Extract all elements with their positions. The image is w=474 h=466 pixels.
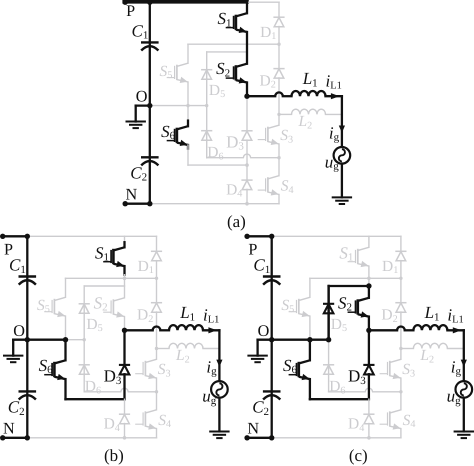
a: transistor S3 — [258, 125, 279, 145]
b: diode D4 — [119, 414, 130, 424]
b: transistor S2 — [103, 298, 124, 318]
a: wire row2 D5-top to S1S2 node — [207, 51, 247, 53]
c: wire E S4 to N bus — [400, 429, 402, 438]
b: transistor S4 — [135, 410, 156, 430]
a: wire E bus to D1 — [278, 2, 280, 17]
c: diode D2 — [395, 303, 406, 313]
b: wire B S5 to O row — [65, 316, 67, 340]
a: node row3 S3S4 grey — [277, 156, 280, 159]
c: diode D4 — [363, 414, 374, 424]
b: wire O ground tap — [13, 339, 27, 341]
b: wire D row4 to D4 — [124, 399, 126, 414]
a: node N-rail — [147, 201, 152, 206]
a: node P dot — [123, 0, 128, 5]
a: wire C row2 to D5 — [206, 52, 208, 79]
a: ground grid — [332, 197, 352, 204]
b: wire P dot to rail — [2, 235, 28, 237]
c: wire out node to hop — [369, 329, 397, 331]
a: wire P bus thick P-to-S1 — [124, 0, 247, 4]
c: transistor S1 — [348, 247, 369, 267]
a: wire B S5 to O row — [187, 82, 189, 106]
a: wire O row S6-leg to D5-leg — [188, 105, 207, 107]
b: wire hop to L1 — [160, 329, 169, 331]
c: arrow ig — [461, 360, 467, 367]
a: wire N bus rail to S4-leg — [150, 203, 279, 205]
b: source ug — [211, 381, 228, 398]
c: wire hop to L1 — [405, 329, 414, 331]
b: wire row2 D5-top to S1S2 node — [84, 285, 124, 287]
b: wire grid drop — [218, 330, 220, 381]
c: wire grid drop — [463, 330, 465, 381]
svg-text:P: P — [126, 2, 135, 20]
b: wire C row2 to D5 — [83, 286, 85, 313]
c: diode D1 — [395, 251, 406, 260]
c: node row1 grey — [367, 277, 371, 281]
c: wire E D2 to L2 row — [400, 312, 402, 349]
c: wire O row S6-leg to D5-leg — [310, 339, 329, 341]
a: wire out node to hop — [247, 95, 275, 97]
b: node N-rail — [25, 435, 30, 440]
b: node O row D5-leg grey — [83, 338, 86, 341]
c: wire hop over D2-leg — [397, 327, 405, 331]
svg-text:O: O — [136, 88, 148, 106]
svg-text:N: N — [126, 186, 138, 204]
a: node O row D5-leg grey — [205, 104, 208, 107]
b: diode D1 — [151, 251, 162, 260]
b: wire C D5 to O row — [83, 313, 85, 340]
a: diode D5 — [201, 70, 212, 80]
a: diode D1 — [273, 17, 284, 26]
c: wire D S2 to out node — [368, 317, 370, 331]
c: wire D row2 to S2 — [368, 286, 370, 298]
b: wire N dot to rail — [2, 437, 28, 439]
c: ground grid — [454, 432, 474, 439]
c: inductor L1 — [413, 325, 447, 330]
a: wire D row4 to D4 — [246, 165, 248, 180]
b: wire B row1 to S5 — [65, 278, 67, 297]
b: node O — [25, 337, 30, 342]
a: transistor S1 — [226, 13, 247, 33]
b: wire E row3 to S4 — [156, 392, 158, 410]
b: capacitor C1 — [19, 277, 37, 285]
a: diode D2 — [273, 69, 284, 79]
b: wire L2 row right — [203, 348, 219, 350]
b: capacitor C2 — [19, 391, 37, 399]
c: node N dot — [244, 435, 249, 440]
a: capacitor C1 — [141, 42, 159, 50]
c: wire E row3 to S4 — [400, 392, 402, 410]
a: wire L2 row left — [279, 113, 292, 115]
c: wire D5 leg bold row2 corner — [327, 286, 329, 340]
a: wire E S3 to row3 — [278, 144, 280, 158]
c: wire D out node to D3 — [368, 330, 370, 365]
b: wire C D6 to row3 — [83, 374, 85, 392]
b: wire D out node to D3 — [123, 330, 125, 365]
b: wire O row rail to S6-leg — [27, 339, 65, 341]
svg-text:(b): (b) — [104, 446, 124, 465]
b: wire row3 D6 to S3S4 node (right) — [128, 391, 156, 393]
c: wire B row1 to S5 — [309, 278, 311, 297]
b: transistor S5 — [44, 297, 65, 317]
a: wire O ground tap — [136, 104, 150, 106]
b: wire O row S6-leg to D5-leg — [66, 339, 85, 341]
a: wire grid drop — [341, 96, 343, 147]
b: wire E row1 to D2 — [156, 278, 158, 303]
c: node L2row D2-leg grey — [399, 347, 402, 350]
a: wire D out node to D3 — [246, 96, 248, 131]
a: wire row3 D6 to S3S4 node (right) — [251, 157, 279, 159]
a: node N bus D-leg grey — [245, 202, 249, 206]
b: ground grid — [209, 432, 229, 439]
c: wire O tap down — [256, 340, 258, 356]
c: wire hop row3 over S1-leg — [365, 388, 372, 392]
c: wire top bus rail to D1 leg — [272, 235, 401, 237]
c: wire E row1 to D2 — [400, 278, 402, 303]
c: wire L2 row right — [447, 348, 463, 350]
a: wire S6 collector stub — [187, 121, 189, 127]
c: wire rail P to N — [271, 236, 273, 437]
b: wire B S6 to row4 — [64, 379, 66, 399]
a: arrow ig — [339, 126, 345, 133]
a: wire B O row to S6 — [187, 106, 189, 127]
b: wire top bus rail to D1 leg — [27, 235, 156, 237]
a: capacitor C2 — [141, 157, 159, 165]
b: node out junction — [122, 328, 127, 333]
a: node O row S6-leg grey — [186, 104, 189, 107]
c: wire E bus to D1 — [400, 236, 402, 251]
b: inductor L2 — [169, 343, 203, 348]
a: wire N dot to rail — [124, 203, 150, 205]
a: node row4 D3-leg grey — [245, 163, 249, 167]
a: transistor S5 — [167, 63, 188, 83]
a: wire top bus S1-leg to D1-leg — [247, 1, 279, 3]
svg-text:O: O — [13, 322, 25, 340]
a: wire rail P to N — [149, 2, 151, 203]
c: wire O ground tap — [258, 339, 272, 341]
c: node O — [269, 337, 274, 342]
a: wire hop to L1 — [283, 95, 292, 97]
c: wire row3 D6 to S3S4 node (left) — [329, 391, 366, 393]
a: wire B row1 to S5 — [187, 44, 189, 63]
a: arrow iL1 — [331, 93, 340, 99]
a: wire hop over D2-leg — [275, 92, 283, 96]
b: wire E S3 to row3 — [156, 378, 158, 392]
b: transistor S6 — [44, 360, 65, 380]
c: transistor S5 — [289, 297, 310, 317]
a: inductor L1 — [292, 91, 326, 96]
c: node P dot — [244, 234, 249, 239]
b: wire C O row to D6 — [83, 340, 85, 374]
c: node row3 S3S4 grey — [399, 390, 402, 393]
b: wire E bus to D1 — [156, 236, 158, 251]
svg-text:N: N — [3, 420, 15, 438]
c: ground at O — [247, 356, 267, 363]
b: node N dot — [0, 435, 5, 440]
a: wire E row3 to S4 — [278, 158, 280, 176]
c: wire B O row to S6 — [309, 340, 311, 361]
b: wire D S1 emitter stub — [123, 266, 125, 275]
c: source ug — [456, 381, 473, 398]
b: wire E D2 to L2 row — [156, 312, 158, 349]
c: wire B S6 to row4 — [309, 379, 311, 399]
b: wire row3 D6 to S3S4 node (left) — [84, 391, 121, 393]
a: ground at O — [126, 122, 146, 129]
c: wire P dot to rail — [246, 235, 272, 237]
svg-text:(a): (a) — [227, 212, 246, 231]
a: wire hop row3 over S1-leg — [243, 154, 250, 158]
b: wire row1 S5-top to D1-anode — [66, 277, 157, 279]
c: node N bus D-leg grey — [367, 436, 371, 440]
svg-text:(c): (c) — [349, 446, 368, 465]
b: wire L1 to corner — [203, 329, 219, 331]
c: transistor S2 — [348, 298, 369, 318]
c: wire E L2row to S3 — [400, 349, 402, 360]
b: inductor L1 — [169, 325, 203, 330]
c: diode D5 — [323, 304, 334, 314]
c: arrow iL1 — [453, 327, 462, 333]
b: wire rail P to N — [26, 236, 28, 437]
c: wire D row4 to D4 — [368, 399, 370, 414]
c: node row1 D1-leg grey — [399, 277, 402, 280]
b: wire N bus rail to S4-leg — [27, 437, 156, 439]
a: node row1 D1-leg grey — [277, 42, 280, 45]
a: wire S6 emitter stub — [187, 145, 189, 149]
a: wire D D3 to row4 — [246, 140, 248, 165]
a: wire row4 S6-emitter to D3-anode — [188, 164, 247, 166]
b: node L2row D2-leg grey — [155, 347, 158, 350]
c: wire E S3 to row3 — [400, 378, 402, 392]
c: wire C row2 to D5 — [327, 286, 329, 313]
c: node out junction — [366, 328, 371, 333]
c: wire B S5 to O row — [309, 316, 311, 340]
b: node P dot — [0, 234, 5, 239]
b: wire out node to hop — [125, 329, 153, 331]
b: wire B O row to S6 — [64, 340, 66, 361]
b: node row1 D1-leg grey — [155, 277, 158, 280]
a: wire C D6 to row3 — [206, 140, 208, 158]
c: wire O row rail to S6-leg — [272, 339, 310, 341]
a: wire L2 row right — [326, 113, 342, 115]
b: node bus-rail — [25, 234, 30, 239]
a: wire row3 D6 to S3S4 node (left) — [207, 157, 244, 159]
a: diode D6 — [201, 131, 212, 141]
a: wire O row rail to S6-leg — [150, 105, 188, 107]
c: node N-rail — [269, 435, 274, 440]
a: node O — [147, 103, 152, 108]
b: wire D bus stub grey — [124, 236, 126, 242]
a: wire ug to ground — [341, 164, 343, 198]
b: diode D6 — [79, 365, 90, 375]
a: wire E row1 to D2 — [278, 44, 280, 69]
b: wire D S2 to out node — [124, 317, 126, 331]
b: node row3 S3S4 grey — [155, 390, 158, 393]
b: wire row4 S6-emitter to D3-anode — [66, 398, 125, 400]
b: diode D5 — [79, 304, 90, 314]
c: node row2 junction — [366, 283, 371, 288]
b: node O row S6-leg — [63, 337, 68, 342]
a: diode D4 — [241, 180, 252, 190]
c: wire ug to ground — [463, 398, 465, 432]
b: arrow iL1 — [208, 327, 217, 333]
b: diode D2 — [151, 303, 162, 313]
a: node L2row D2-leg grey — [277, 113, 280, 116]
b: transistor S3 — [135, 359, 156, 379]
c: wire C D5 to O row — [327, 313, 329, 340]
a: diode D3 — [241, 131, 252, 141]
a: node N dot — [123, 201, 128, 206]
a: wire D S1 to S2 — [246, 32, 248, 64]
c: inductor L2 — [413, 343, 447, 348]
b: wire E S4 to N bus — [156, 429, 158, 438]
b: arrow ig — [216, 360, 222, 367]
c: transistor S3 — [380, 359, 401, 379]
c: node bus-rail — [269, 234, 274, 239]
b: node row1 grey — [123, 277, 127, 281]
a: source ug — [334, 147, 351, 164]
c: wire row1 S5-top to D1-anode — [310, 277, 401, 279]
c: transistor S6 — [289, 360, 310, 380]
c: capacitor C1 — [263, 277, 281, 285]
a: wire L1 to corner — [326, 95, 342, 97]
c: wire E D1 to row1 — [400, 261, 402, 279]
svg-text:O: O — [258, 322, 270, 340]
a: wire E D2 to L2 row — [278, 78, 280, 115]
b: wire D S1 collector stub — [123, 242, 125, 247]
a: transistor S2 — [226, 64, 247, 84]
b: wire D to S2 — [124, 275, 126, 298]
b: wire O tap down — [12, 340, 14, 356]
c: wire L2 row left — [401, 348, 414, 350]
c: wire D S1 to row2 — [368, 266, 370, 286]
b: wire L2 row left — [157, 348, 170, 350]
c: capacitor C2 — [263, 391, 281, 399]
c: wire N dot to rail — [246, 437, 272, 439]
c: node O row D5-leg — [326, 337, 331, 342]
a: wire D S2 to out node — [246, 83, 248, 97]
b: wire hop over D2-leg — [153, 327, 161, 331]
c: node O row S6-leg — [307, 337, 312, 342]
c: wire L1 to corner — [447, 329, 463, 331]
c: transistor S4 — [380, 410, 401, 430]
a: wire C O row to D6 — [206, 106, 208, 140]
c: wire C D6 to row3 — [328, 374, 330, 392]
a: wire C D5 to O row — [206, 79, 208, 106]
c: diode D3 — [363, 365, 374, 375]
c: wire D D3 to row4 — [368, 374, 370, 399]
b: wire E D1 to row1 — [156, 261, 158, 279]
b: node N bus D-leg grey — [123, 436, 127, 440]
b: diode D3 — [119, 365, 130, 375]
a: inductor L2 — [292, 109, 326, 114]
c: wire row4 S6-emitter to D3-anode — [310, 398, 369, 400]
b: wire D D4 to N bus — [124, 424, 126, 438]
a: transistor S6 — [167, 126, 188, 146]
c: wire D bus to S1 — [368, 236, 370, 247]
a: wire E L2row to S3 — [278, 114, 280, 125]
a: wire D D4 to N bus — [246, 189, 248, 203]
a: wire row1 S5-top to D1-anode — [188, 43, 279, 45]
b: wire hop row3 over S1-leg — [121, 388, 128, 392]
svg-text:N: N — [247, 420, 259, 438]
c: wire D D4 to N bus — [368, 424, 370, 438]
b: transistor S1 — [103, 247, 124, 267]
a: transistor S4 — [258, 176, 279, 196]
a: wire O tap down — [135, 106, 137, 122]
a: node bus-rail — [147, 0, 152, 5]
b: wire D D3 to row4 — [123, 374, 125, 399]
a: wire E S4 to N bus — [278, 195, 280, 204]
b: wire ug to ground — [218, 398, 220, 432]
a: wire B S6 to row4 — [187, 145, 189, 165]
b: wire E L2row to S3 — [156, 349, 158, 360]
a: wire E D1 to row1 — [278, 27, 280, 45]
a: node out junction — [244, 93, 249, 98]
b: ground at O — [3, 356, 23, 363]
c: wire row3 D6 to S3S4 node (right) — [373, 391, 401, 393]
c: wire row2 D5-top to S1S2 node — [329, 285, 369, 287]
c: diode D6 — [323, 365, 334, 375]
c: wire C O row to D6 — [328, 340, 330, 374]
a: wire D bus to S1 — [246, 2, 248, 13]
c: wire N bus rail to S4-leg — [272, 437, 401, 439]
